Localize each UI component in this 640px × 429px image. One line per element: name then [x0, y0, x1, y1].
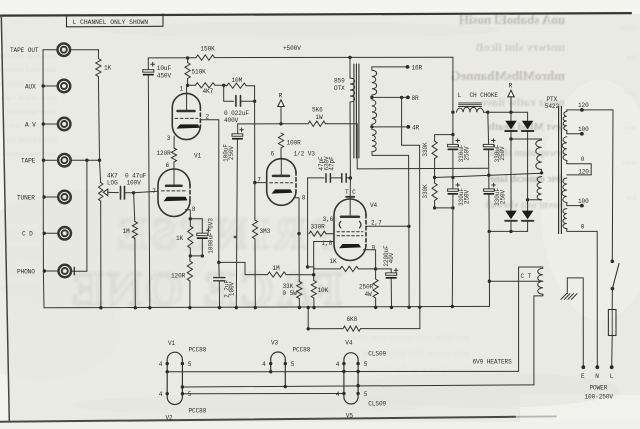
svg-text:5: 5: [364, 391, 368, 398]
svg-text:100R: 100R: [287, 139, 302, 146]
tube heaters V1 V2: [167, 352, 182, 404]
svg-text:LOG: LOG: [107, 180, 118, 187]
svg-text:TAPE: TAPE: [21, 158, 36, 165]
svg-text:3,6: 3,6: [323, 216, 334, 223]
wire tape jack to node: [71, 159, 100, 161]
title box L CHANNEL ONLY SHOWN: [66, 15, 68, 26]
potentiometer VR1 4K7 LOG: [99, 183, 103, 202]
svg-text:bst: bst: [625, 193, 636, 202]
svg-text:6: 6: [166, 162, 170, 169]
resistor 1M (grid leak): [134, 193, 135, 222]
resistor 6K8 feedback: [361, 328, 420, 330]
V4 top cap anode: [349, 178, 351, 197]
svg-text:PCC88: PCC88: [189, 347, 207, 354]
transformer OTX core: [353, 64, 355, 158]
svg-text:2,7: 2,7: [371, 220, 382, 227]
svg-text:V5: V5: [346, 412, 354, 419]
phono plug tick: [73, 267, 75, 275]
V3 anode: [280, 158, 282, 176]
svg-text:1K: 1K: [104, 65, 112, 72]
svg-text:onv: onv: [624, 123, 636, 132]
wire 5K6 to PSU tap: [326, 124, 488, 169]
svg-text:A V: A V: [25, 121, 36, 128]
resistor 510K: [186, 56, 189, 59]
testpoint R (driver): [280, 106, 282, 124]
frame top border: [0, 13, 631, 16]
svg-text:4K7: 4K7: [203, 88, 214, 95]
wire 0 tap to N: [567, 229, 598, 368]
node heater bus B: [183, 385, 534, 387]
resistor 1M (grid): [268, 272, 287, 277]
svg-text:3: 3: [167, 135, 171, 142]
svg-text:120R: 120R: [157, 150, 172, 157]
wire feedback step to 1M: [219, 262, 268, 274]
capacitor 330uF 250V (1a): [452, 135, 454, 145]
wire rectifier bus: [489, 230, 527, 232]
svg-text:+500V: +500V: [283, 45, 301, 52]
svg-text:V1: V1: [194, 152, 202, 159]
capacitor 10uF 450V: [147, 58, 149, 70]
resistor 150K: [196, 55, 215, 60]
frame bottom edge: [0, 417, 515, 422]
capacitor 47pF 630V x2 feedback: [308, 177, 324, 179]
svg-text:1000uF 6V3: 1000uF 6V3: [208, 218, 215, 254]
resistor 3M3: [254, 183, 256, 220]
svg-text:100-250V: 100-250V: [585, 393, 614, 400]
transformer PTX core: [558, 107, 560, 234]
capacitor 2200uF 40V: [376, 269, 392, 273]
node driver B+ rail: [238, 123, 281, 125]
svg-text:V4: V4: [370, 202, 378, 209]
fuse F1: [611, 289, 613, 310]
resistor 1K (tape out): [97, 50, 99, 59]
svg-text:V1: V1: [168, 340, 176, 347]
svg-text:4: 4: [159, 361, 163, 368]
svg-text:510K: 510K: [192, 68, 207, 75]
svg-text:1M: 1M: [273, 265, 281, 272]
svg-text:3M3: 3M3: [260, 228, 271, 235]
capacitor 0.022uF 400V: [224, 85, 234, 101]
V3 cathode: [272, 189, 293, 193]
inductor L choke: [451, 111, 454, 114]
node +500V supply rail: [148, 57, 196, 59]
svg-text:1: 1: [180, 86, 184, 93]
wire 47pF to grid node: [307, 178, 309, 267]
tube heater V3: [271, 352, 286, 387]
svg-text:1K: 1K: [176, 235, 184, 242]
svg-text:0 5W: 0 5W: [283, 290, 298, 297]
resistor 5K6 1W: [308, 121, 326, 126]
svg-text:10K: 10K: [318, 287, 329, 294]
svg-text:5422: 5422: [545, 103, 560, 110]
wire V1 pin2 feedback: [201, 120, 219, 263]
svg-text:4: 4: [336, 391, 340, 398]
svg-text:4: 4: [262, 361, 266, 368]
wire V1 upper cathode to 120R: [173, 136, 175, 148]
terminal 16R: [406, 65, 410, 69]
svg-text:400V: 400V: [224, 117, 239, 124]
earth ground symbol: [567, 278, 583, 367]
svg-text:POWER: POWER: [590, 385, 608, 392]
svg-text:4: 4: [159, 391, 163, 398]
svg-text:L: L: [610, 373, 614, 380]
tube heaters V4 V5: [344, 353, 358, 404]
svg-text:bvnm ltwa ocns dmvt lwen: bvnm ltwa ocns dmvt lwen: [367, 364, 470, 374]
svg-text:150K: 150K: [201, 46, 216, 53]
wire coupling to V3 grid: [254, 101, 256, 182]
switch SW1: [611, 110, 614, 261]
terminal L: [610, 365, 614, 369]
svg-text:4W: 4W: [365, 291, 373, 298]
svg-text:CH CHOKE: CH CHOKE: [470, 92, 499, 99]
resistor 4K7: [188, 84, 196, 86]
testpoint R (psu): [510, 97, 512, 113]
svg-text:E: E: [581, 373, 585, 380]
svg-text:6K8: 6K8: [347, 316, 358, 323]
svg-text:bnwal mvotn clw: bnwal mvotn clw: [5, 136, 57, 144]
svg-text:PHONO: PHONO: [17, 269, 35, 276]
wire V3 grid pin7: [255, 182, 267, 184]
node input ground bus: [43, 50, 44, 308]
transformer PTX 5422 HT winding: [511, 138, 542, 140]
svg-text:N: N: [595, 373, 599, 380]
svg-text:9: 9: [372, 245, 376, 252]
diode D4: [527, 200, 529, 211]
resistor 330K (lower): [432, 183, 437, 201]
svg-text:mstnv cnwal bvd: mstnv cnwal bvd: [6, 108, 57, 116]
svg-text:PRINTSE: PRINTSE: [112, 209, 338, 258]
svg-text:100: 100: [578, 198, 589, 205]
svg-text:CLS09: CLS09: [368, 350, 386, 357]
wire rail to OTX and choke: [215, 56, 453, 58]
svg-text:10M: 10M: [232, 77, 243, 84]
resistor 120R (SRPP): [171, 148, 176, 162]
svg-text:L CHANNEL ONLY SHOWN: L CHANNEL ONLY SHOWN: [73, 19, 149, 26]
terminal 100 (upper): [567, 133, 582, 135]
diode D3: [510, 139, 512, 211]
svg-text:PCC88: PCC88: [189, 407, 207, 414]
svg-text:vmw: vmw: [619, 23, 636, 32]
transformer PTX mains winding: [567, 110, 613, 112]
wire pot wiper: [108, 191, 119, 193]
V1 upper grid: [175, 117, 198, 119]
svg-text:1/2 V3: 1/2 V3: [294, 151, 316, 158]
svg-text:120R: 120R: [171, 272, 186, 279]
diode D2: [527, 112, 529, 121]
svg-text:0 47uF: 0 47uF: [125, 172, 147, 179]
svg-text:1W: 1W: [316, 114, 324, 121]
svg-text:450V: 450V: [157, 73, 172, 80]
resistor 330R (grid stopper): [309, 231, 326, 236]
capacitor 1000uF 6V3: [190, 219, 202, 233]
frame left border: [1, 16, 9, 421]
V4 cathode: [339, 244, 361, 248]
V1 upper cathode: [177, 124, 201, 128]
svg-text:R: R: [279, 92, 283, 99]
svg-text:V4: V4: [345, 339, 353, 346]
triode V1 upper (SRPP): [172, 93, 200, 139]
svg-text:mlw: mlw: [621, 158, 636, 167]
terminal 100 (lower): [567, 205, 582, 207]
wire choke out B+: [484, 111, 528, 113]
svg-text:5: 5: [364, 361, 368, 368]
V1 upper anode: [186, 85, 188, 111]
svg-text:47pF: 47pF: [329, 156, 336, 171]
svg-text:TAPE OUT: TAPE OUT: [10, 47, 39, 54]
svg-text:7: 7: [152, 188, 156, 195]
V4 beam plates: [339, 221, 341, 228]
triode V3 (1/2): [267, 159, 296, 206]
svg-text:250V: 250V: [499, 189, 506, 204]
svg-text:TUNER: TUNER: [17, 195, 35, 202]
svg-text:awnl mvb: awnl mvb: [9, 240, 38, 248]
svg-text:V3: V3: [271, 339, 279, 346]
capacitor 2.2uF 100V: [218, 262, 220, 276]
transformer OTX secondary: [372, 67, 408, 70]
svg-text:100: 100: [578, 126, 589, 133]
V3 grid: [270, 182, 293, 184]
svg-text:33K: 33K: [283, 283, 294, 290]
wire V4 screen to OTX tail: [366, 225, 409, 227]
resistor 1K (V4 grid bias): [314, 267, 340, 269]
wire cap to V1 grid: [125, 192, 134, 194]
svg-text:4R: 4R: [412, 125, 420, 132]
V1 lower grid: [162, 190, 187, 192]
resistor 120R (cathode return): [189, 256, 191, 261]
node ground rail: [44, 306, 490, 307]
transformer heater winding CT: [519, 267, 543, 371]
svg-text:lsn: lsn: [626, 53, 636, 62]
svg-text:330R: 330R: [311, 224, 326, 231]
resistor 10K: [313, 242, 315, 281]
resistor 33K 0.5W: [297, 282, 302, 299]
wire 8R feedback: [402, 97, 420, 328]
svg-text:330K: 330K: [422, 142, 429, 157]
svg-text:120: 120: [578, 102, 589, 109]
terminal 4R: [372, 126, 408, 128]
diode D1: [510, 112, 512, 121]
svg-text:awt: awt: [623, 88, 636, 97]
wire OTX tail to screen: [408, 155, 411, 307]
resistor 1K (cathode): [189, 219, 191, 226]
svg-text:250V: 250V: [463, 146, 470, 161]
svg-text:mstwrv slnt ilcoB: mstwrv slnt ilcoB: [476, 40, 565, 54]
triode V1 lower (input): [158, 169, 190, 217]
svg-text:olwnv azmdh lvpw: olwnv azmdh lvpw: [0, 94, 57, 102]
wire heater CT tap: [489, 280, 543, 282]
svg-text:5: 5: [188, 391, 192, 398]
svg-text:svnt lmw: svnt lmw: [10, 294, 38, 302]
svg-text:OTX: OTX: [334, 85, 345, 92]
svg-text:6V9 HEATERS: 6V9 HEATERS: [473, 359, 513, 366]
wire V1 lower cathode pin8: [185, 210, 190, 219]
resistor 250R 4W: [375, 269, 377, 279]
terminal 8R: [372, 96, 408, 98]
svg-text:6: 6: [271, 151, 275, 158]
svg-text:PCC88: PCC88: [293, 346, 311, 353]
svg-text:120: 120: [578, 169, 589, 176]
capacitor 0.47uF 100V: [120, 186, 122, 199]
svg-text:V2: V2: [166, 414, 174, 421]
V1 lower cathode: [164, 197, 188, 201]
svg-text:8R: 8R: [412, 95, 420, 102]
wire V4 cathode pin9: [364, 250, 376, 269]
resistor 330K (upper): [452, 112, 454, 134]
svg-text:8: 8: [302, 194, 306, 201]
wire tape out to 1K: [70, 49, 98, 51]
wire 1K to tape node: [98, 77, 100, 183]
V1 lower anode: [173, 162, 175, 185]
svg-text:4K7: 4K7: [107, 172, 118, 179]
svg-text:mhroMlbsMhanneG: mhroMlbsMhanneG: [450, 68, 565, 83]
svg-text:250V: 250V: [228, 145, 235, 160]
svg-text:AUX: AUX: [25, 83, 36, 90]
svg-text:250V: 250V: [499, 146, 506, 161]
wire V4 grid1: [314, 241, 334, 243]
node heater bus C: [182, 393, 344, 395]
svg-text:ahlm olwd vnmst re: ahlm olwd vnmst re: [0, 66, 57, 74]
svg-text:10uF: 10uF: [157, 65, 172, 72]
terminal N: [595, 365, 599, 369]
svg-text:1M: 1M: [123, 228, 131, 235]
wire psu return to CT: [488, 231, 490, 306]
transformer OTX 859 primary: [348, 56, 351, 59]
svg-text:relw onv: relw onv: [12, 258, 38, 266]
svg-text:330K: 330K: [422, 184, 429, 199]
resistor 10M: [224, 84, 227, 86]
svg-text:1K: 1K: [330, 258, 338, 265]
svg-text:4: 4: [336, 361, 340, 368]
svg-text:wnv lsmt acbd onwel mstv cnwa: wnv lsmt acbd onwel mstv cnwa: [346, 332, 470, 342]
svg-text:16R: 16R: [412, 65, 423, 72]
svg-text:vmst lonw: vmst lonw: [7, 222, 38, 230]
svg-text:8: 8: [192, 206, 196, 213]
node heater bus A: [167, 370, 518, 372]
svg-text:CLS09: CLS09: [368, 400, 386, 407]
wire V3 cathode pin8: [294, 198, 299, 234]
svg-text:859: 859: [334, 78, 345, 85]
svg-text:40V: 40V: [388, 252, 395, 263]
terminal E: [581, 365, 585, 369]
svg-text:C D: C D: [22, 231, 33, 238]
svg-text:mnwa ltv: mnwa ltv: [10, 276, 38, 284]
svg-text:C T: C T: [521, 273, 532, 280]
node psu mid rail: [435, 173, 542, 177]
wire phono to selector node: [71, 160, 87, 271]
svg-text:250R: 250R: [359, 283, 374, 290]
svg-text:R: R: [509, 82, 513, 89]
jumper 0-120: [567, 164, 591, 175]
svg-text:5: 5: [291, 361, 295, 368]
capacitor 100uF 250V: [237, 124, 239, 134]
V4 grids: [337, 231, 363, 233]
svg-text:0: 0: [581, 224, 585, 231]
capacitor 330uF 250V (2a): [487, 112, 490, 144]
ghost bleedthrough text (decorative): [459, 12, 565, 27]
capacitor 330uF 250V (2b): [488, 175, 490, 189]
svg-text:100V: 100V: [127, 180, 142, 187]
svg-text:0: 0: [581, 156, 585, 163]
svg-text:L: L: [458, 92, 462, 99]
svg-text:100V: 100V: [229, 281, 236, 296]
capacitor 330uF 250V (1b): [452, 178, 454, 189]
svg-text:5: 5: [188, 361, 192, 368]
resistor 100R: [278, 133, 283, 148]
svg-text:5K6: 5K6: [312, 107, 323, 114]
pentode V4 CL509: [334, 199, 366, 261]
svg-text:250V: 250V: [463, 189, 470, 204]
